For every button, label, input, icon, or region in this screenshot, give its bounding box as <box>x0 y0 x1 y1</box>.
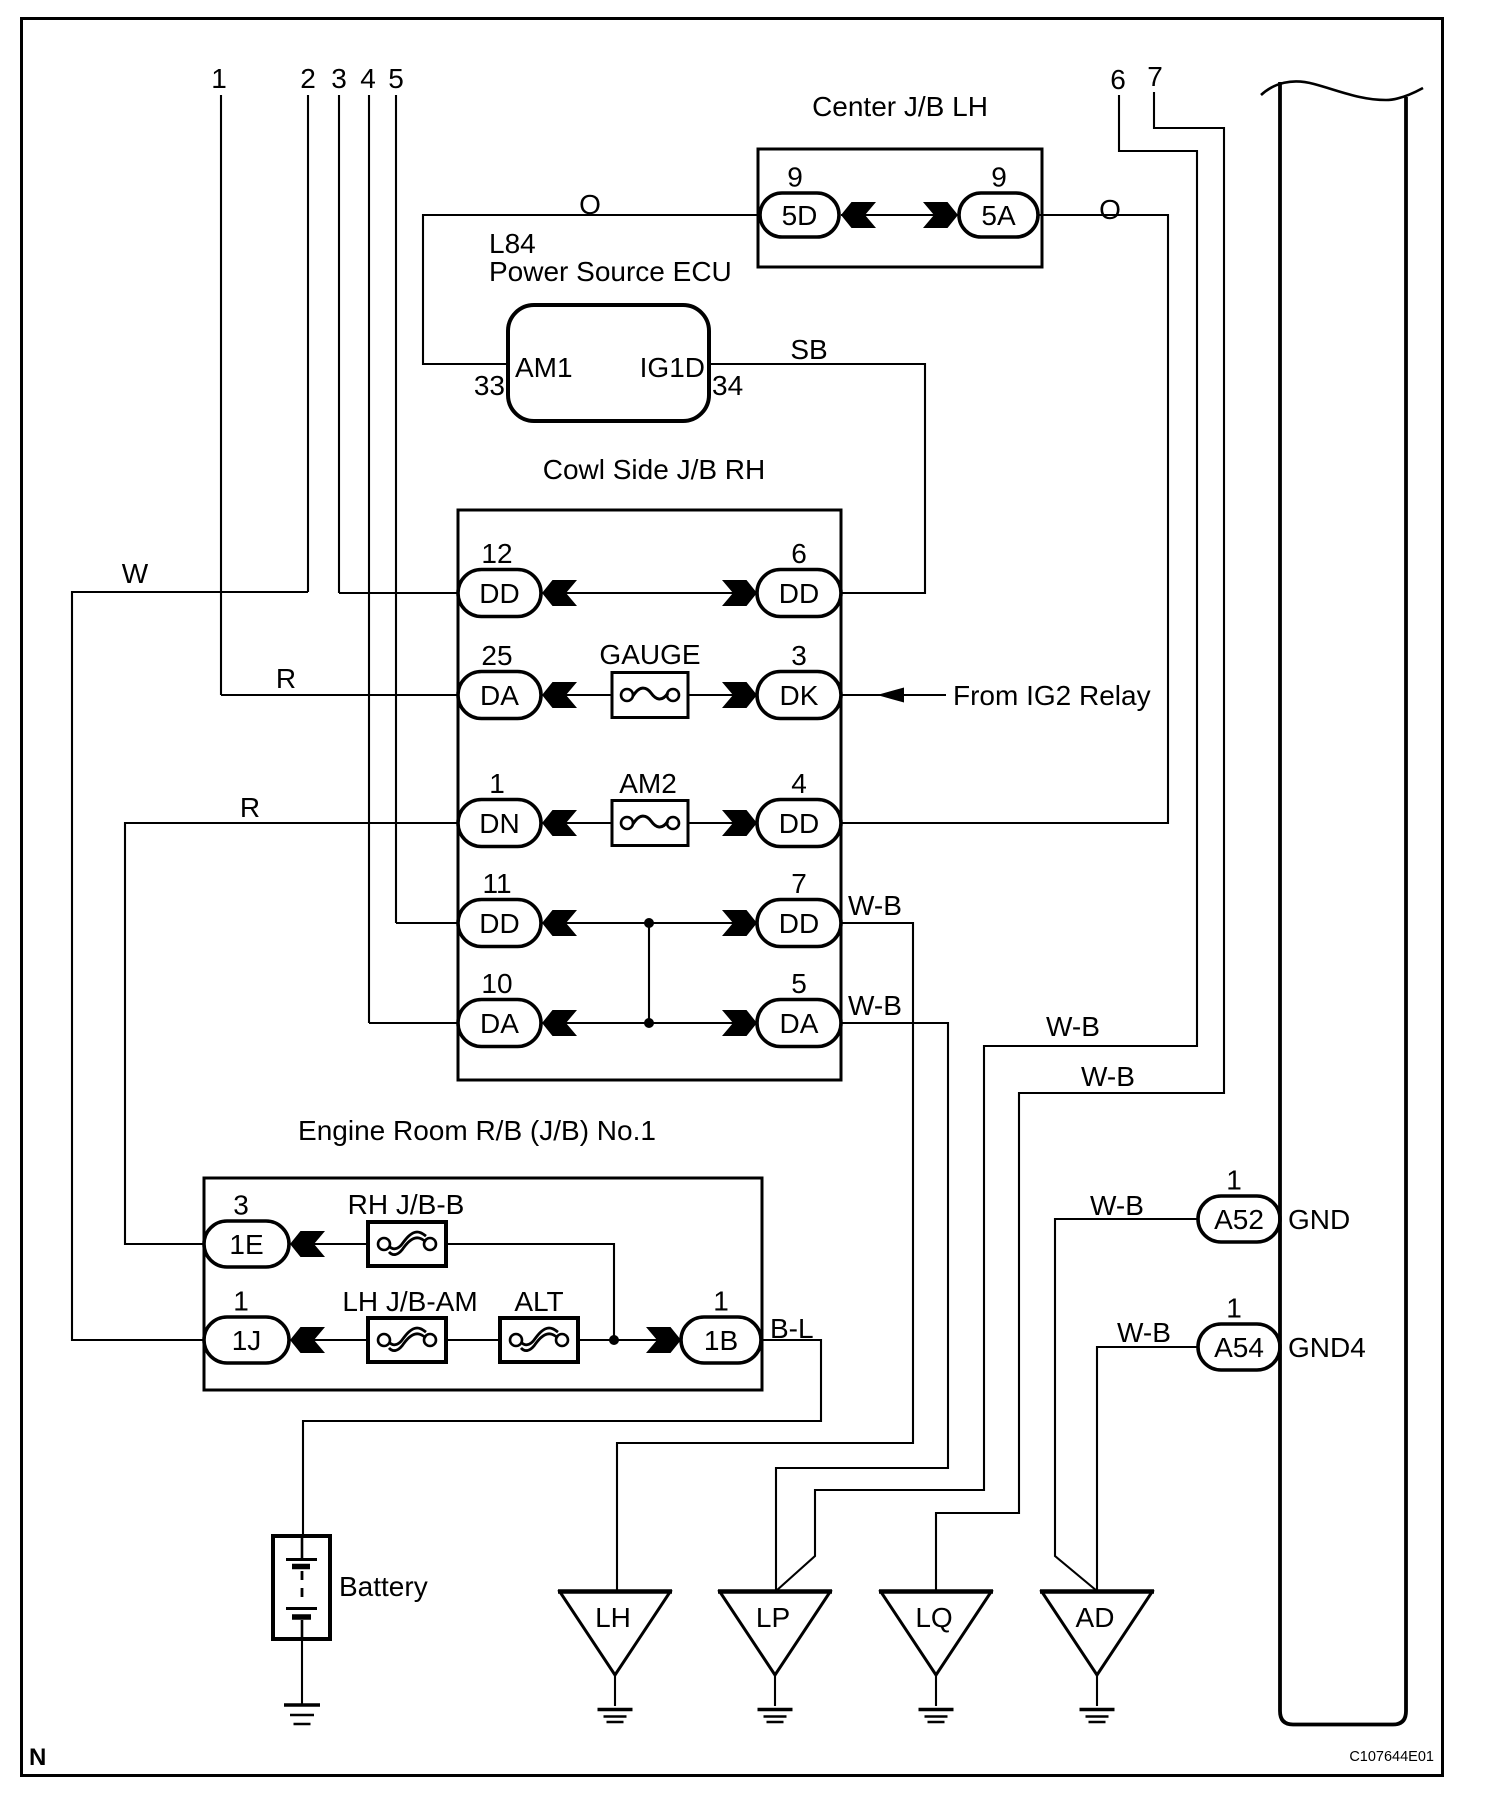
svg-text:SB: SB <box>790 334 827 365</box>
svg-text:3: 3 <box>791 640 807 671</box>
ground under LH <box>598 1710 633 1723</box>
wire DD12 to DD6 <box>542 592 757 594</box>
junction dot row DD11 <box>644 918 654 928</box>
wire DN1 to AM2 fuse <box>542 822 612 824</box>
ground battery <box>284 1705 320 1724</box>
svg-text:2: 2 <box>300 63 316 94</box>
wire ALT link to 1B arrow <box>577 1339 681 1341</box>
arrow at 5A <box>923 202 958 228</box>
ground connector LH <box>558 1592 672 1676</box>
svg-text:GND: GND <box>1288 1204 1350 1235</box>
svg-text:5: 5 <box>791 968 807 999</box>
svg-text:1B: 1B <box>704 1325 738 1356</box>
svg-text:5: 5 <box>388 63 404 94</box>
relay block Engine Room R/B box <box>204 1178 762 1390</box>
arrow at DA10 <box>542 1010 577 1036</box>
ground under LP <box>758 1710 793 1723</box>
wire harness shield outline <box>1280 82 1406 1725</box>
svg-text:DD: DD <box>779 808 819 839</box>
svg-text:11: 11 <box>482 868 511 899</box>
svg-text:6: 6 <box>1110 64 1126 95</box>
svg-text:AM2: AM2 <box>619 768 677 799</box>
connector DD pin 4 <box>757 768 841 847</box>
wire node 2 down <box>307 95 309 592</box>
wire A54 to AD ground point <box>1097 1347 1198 1591</box>
connector DD pin 7 <box>757 868 841 947</box>
arrow at DD11 <box>542 910 577 936</box>
connector DD pin 12 <box>458 538 541 617</box>
wire 1E arrow to RH J/B-B link <box>290 1243 368 1245</box>
svg-text:W: W <box>122 558 149 589</box>
arrow at DN1 <box>542 810 577 836</box>
svg-text:DK: DK <box>780 680 819 711</box>
svg-text:W-B: W-B <box>1090 1190 1144 1221</box>
ground under AD <box>1080 1710 1115 1723</box>
svg-text:6: 6 <box>791 538 807 569</box>
svg-text:3: 3 <box>233 1190 249 1221</box>
svg-text:From IG2 Relay: From IG2 Relay <box>953 680 1151 711</box>
svg-text:5A: 5A <box>981 200 1016 231</box>
svg-text:4: 4 <box>360 63 376 94</box>
connector 1E pin 3 <box>204 1190 289 1268</box>
wire DD7 to LH ground point <box>617 923 913 1591</box>
svg-text:1: 1 <box>1226 1293 1242 1324</box>
connector DD pin 6 <box>757 538 841 617</box>
arrow from IG2 relay <box>877 688 904 703</box>
wire LQ apex to ground <box>935 1675 937 1706</box>
svg-text:A52: A52 <box>1214 1204 1264 1235</box>
svg-text:W-B: W-B <box>1117 1317 1171 1348</box>
svg-text:1: 1 <box>233 1286 249 1317</box>
wire node 1 down to DA25 row <box>220 95 222 695</box>
arrow at DD6 <box>722 580 757 606</box>
arrow at DD7 <box>722 910 757 936</box>
svg-text:1: 1 <box>713 1286 729 1317</box>
svg-text:DD: DD <box>479 578 519 609</box>
wire 1J arrow to LH J/B-AM link <box>290 1339 368 1341</box>
wire junction link <box>648 923 650 1023</box>
fuse GAUGE <box>612 673 688 718</box>
wire net B-L 1B to battery <box>303 1340 821 1536</box>
svg-text:33: 33 <box>474 370 505 401</box>
ground connector AD <box>1040 1592 1154 1676</box>
svg-text:GND4: GND4 <box>1288 1332 1366 1363</box>
svg-text:10: 10 <box>481 968 512 999</box>
connector 1B pin 1 <box>681 1286 761 1364</box>
arrow at 1B <box>646 1327 681 1353</box>
svg-text:GAUGE: GAUGE <box>599 639 700 670</box>
svg-text:1J: 1J <box>232 1325 262 1356</box>
fuse AM2 <box>612 801 688 846</box>
arrow at DA5 <box>722 1010 757 1036</box>
connector DA pin 25 <box>458 640 541 719</box>
svg-text:25: 25 <box>481 640 512 671</box>
connector DA pin 10 <box>458 968 541 1047</box>
svg-text:RH J/B-B: RH J/B-B <box>348 1189 465 1220</box>
arrow at 1E <box>290 1231 325 1257</box>
svg-text:5D: 5D <box>782 200 818 231</box>
wire DA10 to DA5 <box>542 1022 757 1024</box>
svg-text:1E: 1E <box>229 1229 263 1260</box>
svg-text:4: 4 <box>791 768 807 799</box>
svg-text:34: 34 <box>712 370 743 401</box>
wire node 6 to LP ground point <box>776 95 1197 1591</box>
svg-text:N: N <box>29 1744 46 1771</box>
fusible link LH J/B-AM <box>368 1318 446 1362</box>
svg-text:R: R <box>276 663 296 694</box>
arrow at DA25 <box>542 682 577 708</box>
svg-text:9: 9 <box>787 162 803 193</box>
ground connector LP <box>718 1592 832 1676</box>
arrow at DK3 <box>722 682 757 708</box>
wire 1E to DN1 <box>125 823 458 1244</box>
svg-text:Battery: Battery <box>339 1571 428 1602</box>
ground under LQ <box>919 1710 954 1723</box>
svg-text:1: 1 <box>489 768 505 799</box>
fusible link ALT <box>500 1318 578 1362</box>
wire net W node 2 to 1J <box>72 592 308 1340</box>
connector A52 pin 1 <box>1198 1165 1280 1243</box>
wire AD apex to ground <box>1096 1675 1098 1706</box>
wire DA25 to GAUGE fuse <box>542 694 612 696</box>
svg-text:1: 1 <box>211 63 227 94</box>
svg-text:LQ: LQ <box>915 1602 952 1633</box>
connector 1J pin 1 <box>204 1286 289 1364</box>
svg-text:W-B: W-B <box>1046 1011 1100 1042</box>
wire node 1 to DA25 <box>221 694 458 696</box>
wire LH apex to ground <box>614 1675 616 1706</box>
wire node 7 to LQ ground point <box>936 92 1224 1591</box>
connector DN pin 1 <box>458 768 541 847</box>
wire AM2 fuse to DD4 <box>688 822 757 824</box>
svg-text:R: R <box>240 792 260 823</box>
wire RH J/B-B link to junction <box>446 1244 614 1340</box>
svg-text:LH J/B-AM: LH J/B-AM <box>342 1286 477 1317</box>
arrow at 1J <box>290 1327 325 1353</box>
wire node 3 to DD12 <box>339 592 458 594</box>
svg-text:DD: DD <box>779 908 819 939</box>
svg-text:3: 3 <box>331 63 347 94</box>
wire harness torn edge wave <box>1261 81 1423 100</box>
svg-text:DN: DN <box>479 808 519 839</box>
wire LP apex to ground <box>774 1675 776 1706</box>
svg-text:1: 1 <box>1226 1165 1242 1196</box>
svg-text:9: 9 <box>991 162 1007 193</box>
arrow at DD4 <box>722 810 757 836</box>
svg-text:DD: DD <box>779 578 819 609</box>
wire net SB from IG1D to DD6 <box>709 364 925 593</box>
svg-text:ALT: ALT <box>514 1286 563 1317</box>
svg-text:AM1: AM1 <box>515 352 573 383</box>
wire node 5 to DD11 <box>396 922 458 924</box>
wire GAUGE fuse to DK3 <box>688 694 757 696</box>
connector A54 pin 1 <box>1198 1293 1280 1371</box>
connector DA pin 5 <box>757 968 841 1047</box>
svg-text:A54: A54 <box>1214 1332 1264 1363</box>
svg-text:C107644E01: C107644E01 <box>1349 1749 1434 1765</box>
wire 5D to 5A <box>841 214 958 216</box>
connector DK pin 3 <box>757 640 841 719</box>
svg-text:DD: DD <box>479 908 519 939</box>
svg-text:L84: L84 <box>489 228 536 259</box>
wire DK3 from IG2 relay <box>841 694 946 696</box>
wire DD11 to DD7 <box>542 922 757 924</box>
connector 5A pin 9 <box>959 162 1038 238</box>
wire A52 to AD ground point <box>1055 1219 1198 1591</box>
svg-text:LP: LP <box>756 1602 790 1633</box>
wire node 3 down <box>338 95 340 593</box>
svg-text:Cowl Side J/B RH: Cowl Side J/B RH <box>543 454 766 485</box>
connector 5D pin 9 <box>760 162 839 238</box>
svg-text:W-B: W-B <box>1081 1061 1135 1092</box>
fusible link RH J/B-B <box>368 1222 446 1266</box>
ground connector LQ <box>879 1592 993 1676</box>
battery <box>273 1536 330 1639</box>
wire node 4 down to DA10 row <box>368 95 370 1023</box>
wire node 4 to DA10 <box>369 1022 458 1024</box>
svg-text:7: 7 <box>1147 61 1163 92</box>
junction block Cowl Side J/B RH box <box>458 510 841 1080</box>
wire LH J/B-AM link to ALT link <box>446 1339 501 1341</box>
svg-text:DA: DA <box>780 1008 819 1039</box>
svg-text:W-B: W-B <box>848 890 902 921</box>
svg-text:W-B: W-B <box>848 990 902 1021</box>
connector DD pin 11 <box>458 868 541 947</box>
svg-text:O: O <box>1099 194 1121 225</box>
svg-text:AD: AD <box>1076 1602 1115 1633</box>
wire DA5 to LP ground point <box>776 1023 948 1591</box>
arrow at DD12 <box>542 580 577 606</box>
junction dot Engine Room <box>609 1335 619 1345</box>
svg-text:Power Source ECU: Power Source ECU <box>489 256 732 287</box>
svg-text:12: 12 <box>481 538 512 569</box>
junction block Center J/B LH box <box>758 149 1042 267</box>
svg-text:7: 7 <box>791 868 807 899</box>
svg-text:Center J/B LH: Center J/B LH <box>812 91 988 122</box>
wire net O from 5A to DD4 <box>841 215 1168 823</box>
wire battery to ground <box>301 1639 303 1704</box>
svg-text:DA: DA <box>480 680 519 711</box>
svg-text:Engine Room R/B (J/B) No.1: Engine Room R/B (J/B) No.1 <box>298 1115 656 1146</box>
ECU L84 Power Source ECU box <box>508 305 709 421</box>
svg-text:LH: LH <box>595 1602 631 1633</box>
wire net O from 5D to AM1 <box>423 215 760 364</box>
wire node 5 down to DD11 row <box>395 95 397 923</box>
arrow at 5D <box>841 202 876 228</box>
junction dot row DA10 <box>644 1018 654 1028</box>
svg-text:IG1D: IG1D <box>640 352 705 383</box>
svg-text:DA: DA <box>480 1008 519 1039</box>
